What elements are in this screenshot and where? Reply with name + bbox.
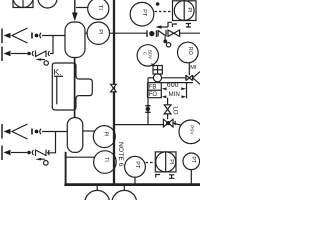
- instrument bubble LI: [93, 126, 115, 148]
- instrument bubble BDV: [137, 45, 158, 66]
- FB FO table and dimension: [148, 82, 194, 98]
- wire: inlet line with arrow into vessel V1: [72, 0, 78, 21]
- svg-text:PI: PI: [102, 132, 108, 137]
- svg-text:FO: FO: [149, 92, 158, 98]
- wire V1 to V2: [74, 58, 76, 118]
- inline fitting row A: [32, 33, 41, 39]
- mounting marks below square: [156, 175, 175, 179]
- instrument bubble PT top: [130, 2, 154, 26]
- svg-text:K.: K.: [54, 67, 62, 77]
- PT stem: [190, 170, 192, 184]
- main header pipe (thick vertical): [113, 0, 115, 184]
- svg-text:PI: PI: [168, 159, 174, 165]
- bottom bubble B (cut off): [112, 186, 137, 216]
- inline fitting row C: [32, 129, 41, 135]
- svg-text:TI: TI: [103, 157, 109, 161]
- svg-text:PT: PT: [141, 9, 147, 17]
- valve row D: [36, 150, 50, 157]
- arrow row A: [4, 33, 11, 38]
- svg-text:LO: LO: [172, 106, 179, 114]
- RO stem: [188, 63, 190, 75]
- actuator box: [153, 66, 162, 75]
- wire branch A-B: [50, 36, 53, 54]
- svg-text:C: C: [142, 52, 147, 55]
- signal dashes to PI square: [146, 162, 155, 164]
- instrument square top-left (cut off): [13, 0, 33, 8]
- svg-text:PI: PI: [186, 7, 192, 13]
- wire row A to V1: [42, 35, 65, 37]
- vent stub below valve: [163, 37, 170, 48]
- instrument bubble PI: [87, 22, 109, 44]
- wire top cross pipe: [110, 32, 147, 34]
- bottom header (thick horizontal): [64, 183, 200, 186]
- svg-text:MI: MI: [190, 65, 197, 71]
- edge connector row C: [1, 124, 3, 139]
- inline fitting row D: [27, 150, 33, 155]
- svg-text:PT: PT: [190, 156, 196, 163]
- wire drain to LG bubble: [66, 156, 95, 158]
- instrument bubble PT bottom: [125, 156, 146, 177]
- junction dot: [156, 2, 160, 6]
- wire PI link: [85, 32, 87, 34]
- edge connector row A: [1, 29, 3, 44]
- svg-text:PSV: PSV: [189, 125, 194, 135]
- valve (gate) on cross pipe: [158, 30, 166, 37]
- svg-text:NOTE 6: NOTE 6: [117, 142, 124, 167]
- edge connector row B: [1, 47, 3, 62]
- orifice valve right: [186, 75, 193, 81]
- drain row B: [35, 58, 48, 65]
- instrument bubble PT bottom right: [183, 153, 200, 170]
- instrument bubble TI: [88, 0, 109, 19]
- instrument square PI bottom: [155, 152, 176, 172]
- wire cross pipe right: [180, 32, 200, 34]
- valve row B: [36, 51, 50, 58]
- wire PSV branch pipe: [113, 124, 163, 126]
- drain row D: [35, 158, 48, 165]
- wire V2 to LI bubble: [83, 130, 95, 132]
- wire row B: [11, 53, 27, 55]
- vent funnel row C: [12, 124, 28, 139]
- angle valve to PSV: [163, 119, 175, 127]
- instrument square PI top-right: [173, 1, 197, 21]
- svg-text:MIN: MIN: [169, 91, 180, 98]
- edge connector row D: [1, 146, 3, 161]
- svg-text:PT: PT: [134, 161, 140, 169]
- valve (bowtie) on cross pipe: [168, 30, 180, 36]
- vent funnel row A: [12, 28, 28, 43]
- wire row D: [11, 152, 27, 154]
- arrow row C: [4, 129, 11, 134]
- wire to PSV: [173, 123, 181, 125]
- svg-text:600: 600: [167, 82, 179, 89]
- open end spread: [193, 72, 200, 85]
- instrument bubble top (cut off): [38, 0, 57, 8]
- vessel V1: [65, 22, 85, 58]
- svg-text:FB: FB: [149, 85, 157, 91]
- wire branch C-D: [47, 132, 56, 153]
- instrument bubble RO: [178, 42, 199, 63]
- vessel V2: [67, 118, 83, 153]
- compressor K outline: [52, 63, 92, 110]
- svg-text:BDV: BDV: [148, 50, 153, 59]
- PT stem: [134, 177, 136, 184]
- valve ball on blowdown pipe: [153, 74, 161, 82]
- wire blowdown pipe: [148, 77, 153, 79]
- wire TI link: [76, 7, 88, 9]
- svg-text:RO: RO: [187, 47, 193, 56]
- globe valve LO: [164, 98, 171, 120]
- bottom bubble A (cut off): [85, 186, 110, 216]
- instrument bubble PSV: [179, 120, 203, 144]
- svg-text:TI: TI: [97, 5, 103, 10]
- mounting marks below square: [173, 24, 192, 28]
- signal dashes PT to PI: [155, 11, 173, 13]
- inline fitting row B: [27, 51, 33, 56]
- arrow row D: [4, 150, 11, 155]
- actuator link: [152, 64, 155, 67]
- wire row C to V2: [42, 131, 67, 133]
- thick drain L pipe: [65, 152, 67, 184]
- svg-text:PI: PI: [97, 29, 103, 35]
- instrument bubble LG: [94, 151, 117, 174]
- arrow row B: [4, 51, 11, 56]
- signal arrow above valve: [156, 22, 173, 29]
- wire elbow pipe down: [147, 78, 149, 125]
- valve on main header: [111, 84, 117, 92]
- inline orifice on elbow: [145, 106, 150, 113]
- spectacle blind: [147, 30, 157, 37]
